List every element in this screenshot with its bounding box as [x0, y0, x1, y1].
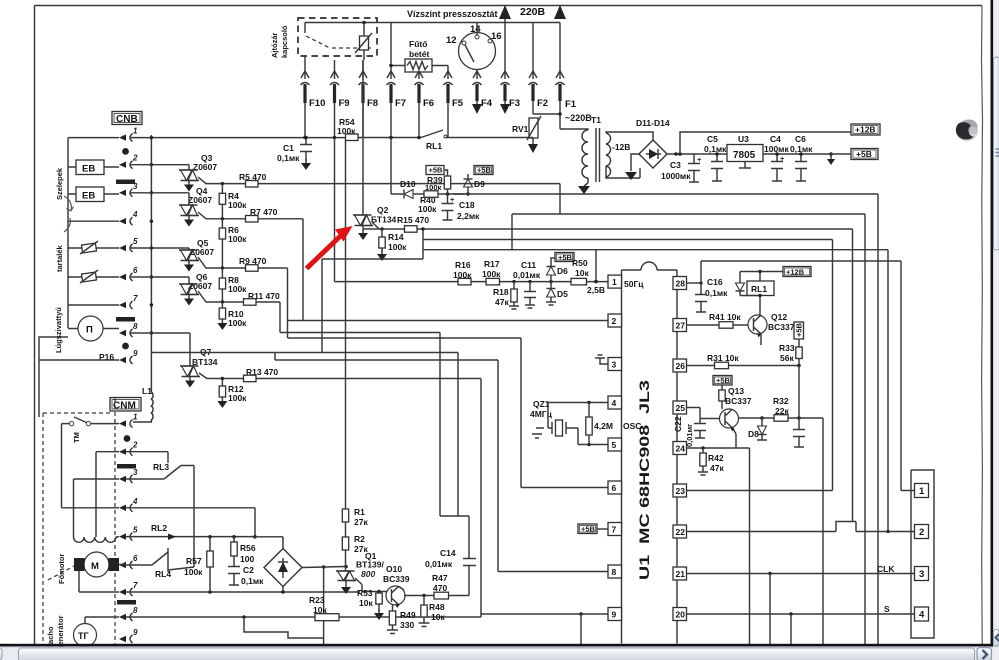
svg-text:C18: C18 [459, 200, 475, 210]
svg-text:+12В: +12В [855, 125, 876, 135]
svg-text:220В: 220В [520, 6, 546, 18]
power label +12V [851, 124, 880, 135]
wire MCU pin2 line [288, 320, 609, 322]
svg-text:23: 23 [676, 486, 686, 496]
connector F2 [532, 23, 534, 80]
svg-text:C6: C6 [795, 134, 806, 144]
ground MCU pin3 [595, 355, 608, 364]
bridge rectifier (motor) [264, 549, 302, 587]
wire bus y249.7 [423, 249, 888, 251]
svg-text:F7: F7 [395, 98, 406, 109]
wire MCU pin9 feed [481, 613, 608, 615]
svg-text:Q2: Q2 [377, 205, 389, 215]
wire R54 drop x345.5 [345, 141, 347, 510]
MCU pin 8 [608, 565, 622, 578]
wire right bus verticals [832, 240, 834, 491]
svg-text:100к: 100к [184, 567, 203, 577]
relay contact RL1 (mains) [421, 130, 443, 138]
wire F columns [304, 56, 306, 79]
svg-text:47к: 47к [710, 463, 724, 473]
svg-text:C16: C16 [707, 277, 723, 287]
svg-text:TM: TM [72, 432, 81, 443]
resistor R5 470 [198, 177, 560, 184]
ink blob [956, 120, 978, 142]
svg-text:24: 24 [676, 444, 686, 454]
svg-text:4: 4 [132, 497, 138, 506]
svg-text:R18: R18 [493, 287, 509, 297]
CNB pin 7 [119, 302, 126, 308]
CNB pin 6 [119, 274, 126, 280]
wire MCU pin24 line [687, 448, 750, 644]
svg-text:R33: R33 [779, 343, 795, 353]
svg-text:F4: F4 [481, 98, 493, 109]
svg-text:100к: 100к [482, 269, 501, 279]
wire C14 top to x440 [440, 515, 469, 517]
svg-text:2: 2 [132, 154, 138, 163]
svg-text:10к: 10к [575, 268, 589, 278]
svg-text:C2: C2 [243, 565, 254, 575]
connector F7 [387, 71, 395, 78]
svg-text:0,01мк: 0,01мк [425, 559, 453, 569]
MCU pin 4 [608, 396, 622, 409]
power label +5V rotated (Q12) [794, 322, 804, 339]
wire bus y214 [512, 213, 865, 215]
svg-text:D9: D9 [474, 179, 485, 189]
dashed link motor [48, 566, 74, 580]
MCU U1 MC 68HC908 JL3 body [622, 270, 678, 644]
CNM pin 1 [119, 420, 126, 426]
polarity bar CNM2 [117, 600, 136, 605]
svg-text:R48: R48 [429, 602, 445, 612]
wire bus corner x423 [322, 229, 423, 353]
svg-text:+: + [780, 154, 785, 163]
svg-text:Fűtő: Fűtő [409, 39, 427, 49]
thermistor pin6 [68, 276, 119, 278]
svg-text:F2: F2 [537, 98, 548, 109]
svg-text:BT139/: BT139/ [356, 560, 385, 570]
vertical scrollbar bottom button [993, 630, 999, 647]
svg-text:2,2мк: 2,2мк [457, 211, 480, 221]
power label +5V [851, 149, 878, 160]
MCU pin 5 [608, 438, 622, 451]
potentiometer in door box [360, 36, 369, 50]
svg-text:C14: C14 [440, 548, 456, 558]
svg-text:21: 21 [676, 569, 686, 579]
scrollbar corner [993, 647, 999, 660]
svg-text:R14: R14 [388, 232, 404, 242]
wire bus x512 drop [511, 214, 513, 250]
220V feed arrow F3 top [499, 5, 511, 19]
svg-text:BC339: BC339 [383, 574, 410, 584]
svg-text:CNM: CNM [113, 401, 136, 412]
svg-text:+5В: +5В [581, 525, 596, 534]
svg-text:R56: R56 [240, 543, 256, 553]
svg-text:20: 20 [676, 610, 686, 620]
svg-text:T1: T1 [591, 115, 601, 125]
svg-text:100к: 100к [228, 200, 247, 210]
polarity bar CNM [117, 464, 136, 469]
svg-text:CNB: CNB [116, 114, 138, 125]
CNM dashed boundary [114, 398, 116, 644]
door switch contact (dashed lever) [304, 23, 306, 34]
svg-text:10к: 10к [431, 612, 445, 622]
svg-text:8: 8 [612, 567, 617, 577]
svg-text:100к: 100к [425, 183, 442, 192]
svg-text:Vízszint presszosztát: Vízszint presszosztát [407, 9, 498, 19]
wire MCU pin27 to Q12 [687, 324, 749, 326]
svg-text:R1: R1 [354, 507, 365, 517]
thermistor pin5 [68, 247, 119, 249]
ground T1 primary [584, 178, 588, 186]
svg-text:+5В: +5В [558, 253, 573, 262]
svg-text:8: 8 [133, 322, 138, 331]
resistor R7 470 [198, 212, 303, 219]
svg-text:7805: 7805 [733, 150, 756, 161]
connector pin 2 [915, 525, 929, 539]
power label +5V (D9) [474, 166, 493, 175]
svg-text:П: П [86, 325, 93, 336]
wire x498 drop to MCU pin8 [497, 360, 499, 572]
svg-text:12: 12 [446, 35, 457, 46]
output connector box [911, 470, 934, 638]
svg-text:RL3: RL3 [153, 462, 169, 472]
wire MCU pin6 feed [521, 487, 608, 489]
svg-text:100к: 100к [228, 393, 247, 403]
wire R7 drop to pin2 line [302, 219, 304, 321]
MCU pin 9 [608, 608, 622, 621]
wire +12V raw rail [667, 153, 829, 155]
polarity dot mark 2 [122, 343, 129, 350]
vertical scrollbar track [993, 0, 999, 660]
svg-text:Z0607: Z0607 [188, 195, 212, 205]
svg-text:3: 3 [919, 569, 924, 580]
wire MCU pin28 to C16 [687, 282, 702, 284]
wire pin2 right RL3 [126, 452, 168, 463]
svg-text:100к: 100к [228, 234, 247, 244]
220V feed arrow F1 top [554, 5, 566, 19]
wire +12V distribution y261 [701, 260, 901, 262]
svg-text:F10: F10 [309, 98, 325, 109]
svg-text:4: 4 [919, 610, 925, 621]
svg-text:330: 330 [400, 620, 414, 630]
svg-text:0,1мк: 0,1мк [277, 153, 300, 163]
svg-text:RL1: RL1 [751, 284, 767, 294]
MCU pin 27 [673, 319, 687, 332]
CNM pin 7 [119, 589, 126, 595]
svg-text:8: 8 [133, 606, 138, 615]
wire T1 primary top [560, 129, 588, 130]
connector pin 3 [915, 567, 929, 581]
svg-text:7: 7 [612, 525, 617, 535]
wire R11 drop [279, 302, 281, 333]
svg-text:6: 6 [133, 554, 138, 563]
svg-text:CLK: CLK [877, 564, 895, 574]
svg-text:100к: 100к [228, 284, 247, 294]
connector F1 [559, 23, 561, 80]
resistor R11 470 [198, 291, 280, 302]
connector CNB label [112, 112, 142, 125]
resistor R13 470 [199, 373, 481, 379]
MCU pin 20 [673, 608, 687, 621]
svg-text:BC337: BC337 [768, 322, 795, 332]
svg-text:Lúgszivattyú: Lúgszivattyú [54, 307, 63, 353]
svg-text:+: + [450, 195, 455, 204]
CNB pin 1 [119, 134, 126, 140]
svg-text:3: 3 [133, 468, 138, 477]
MCU pin 21 [673, 567, 687, 580]
svg-text:800: 800 [361, 569, 375, 579]
MCU pin 3 [608, 358, 622, 371]
wire MCU pin23 line [687, 490, 833, 492]
svg-text:C3: C3 [670, 160, 681, 170]
svg-text:F8: F8 [367, 98, 378, 109]
svg-text:F9: F9 [339, 98, 350, 109]
CNM pin 8 [119, 614, 126, 620]
svg-text:+5В: +5В [429, 166, 444, 175]
svg-text:Q13: Q13 [728, 386, 744, 396]
svg-text:R31 10к: R31 10к [707, 353, 739, 363]
wire pin8 R23 line [85, 616, 481, 618]
svg-text:-12В: -12В [612, 142, 630, 152]
svg-text:100: 100 [240, 554, 254, 564]
svg-text:D11-D14: D11-D14 [636, 118, 670, 128]
svg-text:kapcsoló: kapcsoló [280, 25, 289, 58]
wire pin7 line [126, 591, 360, 593]
svg-text:9: 9 [612, 610, 617, 620]
horizontal scrollbar right arrow button [977, 648, 992, 660]
svg-text:М: М [91, 561, 99, 572]
wire y332.5 run [280, 333, 440, 517]
svg-text:C11: C11 [521, 260, 536, 270]
connector F3 [504, 19, 506, 79]
svg-text:6: 6 [133, 266, 138, 275]
power label +5V (Q13) [713, 376, 732, 386]
svg-text:C22: C22 [673, 416, 683, 432]
connector F6 [415, 71, 423, 78]
wire staircase to bottom edge [242, 615, 245, 618]
wire pin2 left (field winding tap) [96, 452, 119, 537]
svg-text:Q12: Q12 [771, 312, 787, 322]
svg-text:1: 1 [919, 486, 925, 497]
MCU pin 6 [608, 481, 622, 494]
svg-text:ТГ: ТГ [78, 631, 89, 641]
svg-text:БТ134: БТ134 [371, 215, 397, 225]
svg-text:R53: R53 [357, 588, 373, 598]
svg-text:100к: 100к [228, 318, 247, 328]
svg-text:7: 7 [133, 294, 138, 303]
wire 2.5V reference line [335, 281, 609, 283]
pump motor P (Lugszivattyu) [78, 316, 103, 341]
wire main 137.5 line [130, 137, 421, 139]
svg-text:6: 6 [612, 483, 617, 493]
MCU pin 24 [673, 442, 687, 455]
connector F4 [476, 70, 478, 80]
MCU pin 23 [673, 484, 687, 497]
svg-text:C4: C4 [770, 134, 781, 144]
wire pin1 connector feed [901, 490, 915, 492]
heater leads [391, 65, 448, 67]
motor field winding [74, 537, 116, 543]
wire y338 run [288, 338, 522, 488]
polarity dot CNM [124, 435, 131, 442]
svg-text:1: 1 [133, 127, 138, 136]
polarity bar mark [116, 180, 135, 185]
svg-text:ЕВ: ЕВ [82, 191, 95, 202]
wire R13 drop x481 [480, 379, 482, 618]
svg-text:D5: D5 [557, 289, 568, 299]
wire Q2 gate bus y229 [363, 222, 853, 229]
MCU pin 22 [673, 525, 687, 538]
wire MCU pin8 feed [498, 571, 608, 573]
svg-text:S: S [884, 604, 890, 614]
wire 220V top rail [305, 22, 560, 24]
svg-text:10к: 10к [359, 598, 373, 608]
svg-text:9: 9 [133, 349, 138, 358]
svg-text:F3: F3 [509, 98, 520, 109]
viewer window right edge black bar [991, 0, 994, 647]
power label +5V (pin7) [578, 524, 597, 534]
svg-text:RL2: RL2 [151, 523, 167, 533]
wire R5 drop to pin2?? x559 [559, 184, 561, 214]
svg-text:2,5В: 2,5В [587, 285, 605, 295]
valve EB box 1 [76, 160, 104, 175]
svg-text:4: 4 [612, 398, 617, 408]
svg-text:9: 9 [133, 628, 138, 637]
svg-text:16: 16 [491, 31, 502, 42]
svg-text:betét: betét [409, 49, 429, 59]
svg-text:3: 3 [612, 360, 617, 370]
wire MCU pin22 line [687, 522, 915, 532]
wire F9 column down to 2.5V line [334, 138, 336, 282]
svg-text:R57: R57 [186, 556, 202, 566]
wire MCU pin20 S line [687, 613, 915, 615]
wire y352.5 run [151, 353, 458, 517]
svg-text:RV1: RV1 [512, 124, 529, 134]
resistor R9 470 [198, 257, 288, 268]
capacitor C24 [793, 418, 805, 447]
MCU pin 1 [608, 275, 622, 288]
MCU pin 2 [608, 314, 622, 327]
MCU pin 28 [673, 277, 687, 290]
relay RL1 [747, 281, 774, 296]
svg-text:tartalék: tartalék [55, 244, 64, 272]
svg-text:R16: R16 [455, 260, 471, 270]
wire F2-F1 link [533, 113, 560, 115]
svg-text:4: 4 [132, 210, 138, 219]
wire pin7 tap [68, 304, 119, 306]
svg-text:R23: R23 [309, 595, 325, 605]
wire Q13 out R32 [738, 417, 823, 419]
svg-text:1000мк: 1000мк [661, 171, 691, 181]
svg-text:5: 5 [133, 237, 138, 246]
svg-text:5: 5 [612, 440, 617, 450]
wire MCU pin21 CLK line [687, 573, 915, 575]
wire secondary to bridge [606, 132, 653, 140]
connector F8 [359, 71, 367, 78]
wire P16 y360 run [275, 353, 498, 361]
svg-text:7: 7 [133, 581, 138, 590]
svg-text:0,01мк: 0,01мк [513, 270, 541, 280]
wire D9-D10 rail continues [453, 193, 878, 195]
horizontal scrollbar track [0, 647, 999, 660]
CNM pin 5 [119, 533, 126, 539]
connector F9 [331, 71, 339, 78]
wire left rail [67, 138, 69, 328]
wire x823 drop [822, 418, 824, 644]
CNB pin 2 [119, 162, 126, 168]
MCU pin 26 [673, 359, 687, 372]
svg-text:U1 MC 68HC908 JL3: U1 MC 68HC908 JL3 [636, 380, 652, 580]
svg-text:R50: R50 [572, 258, 588, 268]
MCU pin 7 [608, 523, 622, 536]
wire bus x596 drop to 2.5V node [595, 250, 597, 282]
CNM pin 2 [119, 449, 126, 455]
ground bridge left [631, 154, 639, 171]
wire pin4 tap [68, 220, 119, 222]
polarity dot mark [122, 148, 129, 155]
svg-text:22: 22 [676, 527, 686, 537]
svg-text:ЕВ: ЕВ [82, 164, 95, 175]
MCU pin 25 [673, 401, 687, 414]
CNB pin 5 [119, 245, 126, 251]
svg-text:0,1мк: 0,1мк [704, 144, 727, 154]
CNM pin 3 [119, 476, 126, 482]
svg-text:+5В: +5В [477, 166, 492, 175]
svg-text:5: 5 [133, 526, 138, 535]
wire pin9 to left [39, 337, 119, 417]
red annotation arrow [307, 226, 353, 269]
svg-text:R32: R32 [773, 396, 789, 406]
svg-text:56к: 56к [780, 353, 794, 363]
wire pin3 left [74, 479, 120, 537]
pressure switch [459, 33, 496, 70]
svg-text:U3: U3 [738, 134, 749, 144]
power label +5V (R39) [426, 166, 444, 175]
wire bridge to Q1 [302, 567, 346, 568]
svg-text:1: 1 [133, 413, 138, 422]
svg-text:C1: C1 [283, 143, 294, 153]
svg-text:R42: R42 [708, 453, 724, 463]
connector F5 [444, 71, 452, 78]
CNB pin 9 [119, 357, 126, 363]
svg-text:47к: 47к [495, 297, 509, 307]
resistor Q13 collector R [721, 385, 723, 390]
svg-text:100к: 100к [388, 242, 407, 252]
svg-text:4МГц: 4МГц [530, 409, 553, 419]
svg-text:Ajtózár: Ajtózár [270, 33, 279, 59]
CNM pin 4 [119, 505, 126, 511]
CNM pin 6 [119, 562, 126, 568]
wire pin4 drop [126, 508, 255, 537]
diode D7 (relay clamp) [739, 272, 741, 296]
svg-text:R47: R47 [432, 573, 448, 583]
horizontal scrollbar left button remnant [0, 648, 2, 660]
svg-text:D10: D10 [400, 179, 416, 189]
svg-text:27к: 27к [354, 517, 368, 527]
svg-text:F6: F6 [423, 98, 434, 109]
svg-text:2: 2 [612, 316, 617, 326]
polarity bar mark 2 [116, 317, 135, 322]
ground tap on 5V rail [830, 154, 832, 159]
svg-text:50Гц: 50Гц [624, 279, 644, 289]
svg-text:R2: R2 [354, 534, 365, 544]
CNB pin 4 [119, 218, 126, 224]
svg-text:Főmotor: Főmotor [57, 554, 66, 584]
svg-text:R41 10к: R41 10к [709, 312, 741, 322]
svg-text:100к: 100к [418, 204, 437, 214]
svg-text:25: 25 [676, 403, 686, 413]
svg-text:L1: L1 [142, 386, 152, 396]
